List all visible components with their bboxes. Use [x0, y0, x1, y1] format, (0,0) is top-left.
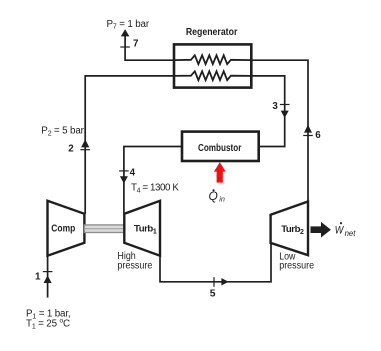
combustor box — [182, 132, 259, 161]
node 7 arrowhead (up) — [121, 29, 130, 36]
svg-text:6: 6 — [315, 130, 321, 141]
turbine Turb1 trapezoid — [124, 201, 160, 256]
node 2 tick — [80, 149, 90, 151]
svg-text:pressure: pressure — [279, 261, 314, 272]
net work output black arrow — [311, 222, 331, 238]
wire: compressor outlet (2) up and right to regenerator cold side — [85, 76, 174, 214]
shaft between Comp and Turb1 — [84, 225, 124, 233]
svg-text:4: 4 — [130, 167, 136, 178]
compressor Comp trapezoid — [48, 201, 85, 256]
node 2 arrowhead (up) — [81, 139, 89, 147]
regenerator cold-side zigzag coil — [174, 71, 251, 80]
svg-text:net: net — [345, 229, 357, 238]
wire: combustor outlet left and down (4) into Turb1 — [124, 147, 182, 214]
svg-text:Comp: Comp — [51, 224, 75, 235]
svg-text:5: 5 — [210, 288, 216, 299]
node 4 arrowhead (down) — [120, 176, 128, 183]
wire: inlet line (1) up into compressor — [47, 256, 49, 298]
svg-text:1: 1 — [35, 272, 41, 283]
heat input red arrow Qin — [214, 162, 226, 182]
node 1 tick — [43, 271, 53, 273]
node 7 tick — [120, 46, 130, 48]
label: Wdot_net — [335, 222, 356, 238]
node 3 tick — [280, 104, 290, 106]
svg-text:W: W — [335, 224, 345, 236]
node 6 tick — [303, 135, 313, 137]
node 4 tick — [119, 170, 129, 172]
wire: Turb1 outlet down and right (5) to Turb2 inlet — [160, 243, 271, 282]
svg-text:in: in — [219, 195, 225, 204]
turbine Turb2 trapezoid — [271, 202, 308, 256]
node 5 arrowhead (right) — [221, 278, 228, 285]
regenerator box — [174, 44, 251, 87]
wire: exhaust line Turb2 outlet up right side (6) to regenerator hot side — [251, 60, 308, 201]
node 3 arrowhead (down) — [281, 111, 289, 118]
wire: regenerator cold outlet right and down (3) into combustor — [251, 76, 284, 147]
svg-text:7: 7 — [133, 38, 139, 49]
label: Qdot_in — [209, 189, 225, 204]
svg-text:3: 3 — [272, 101, 278, 112]
svg-text:Regenerator: Regenerator — [186, 27, 238, 38]
svg-text:Combustor: Combustor — [198, 143, 242, 154]
regenerator hot-side zigzag coil — [174, 55, 251, 64]
wire: regenerator hot side outlet left to stack line — [125, 32, 174, 61]
svg-text:pressure: pressure — [117, 261, 152, 272]
node 1 arrowhead (up) — [44, 275, 52, 283]
node 5 tick — [213, 277, 215, 287]
svg-text:2: 2 — [68, 143, 74, 154]
node 6 arrowhead (up) — [304, 125, 312, 133]
